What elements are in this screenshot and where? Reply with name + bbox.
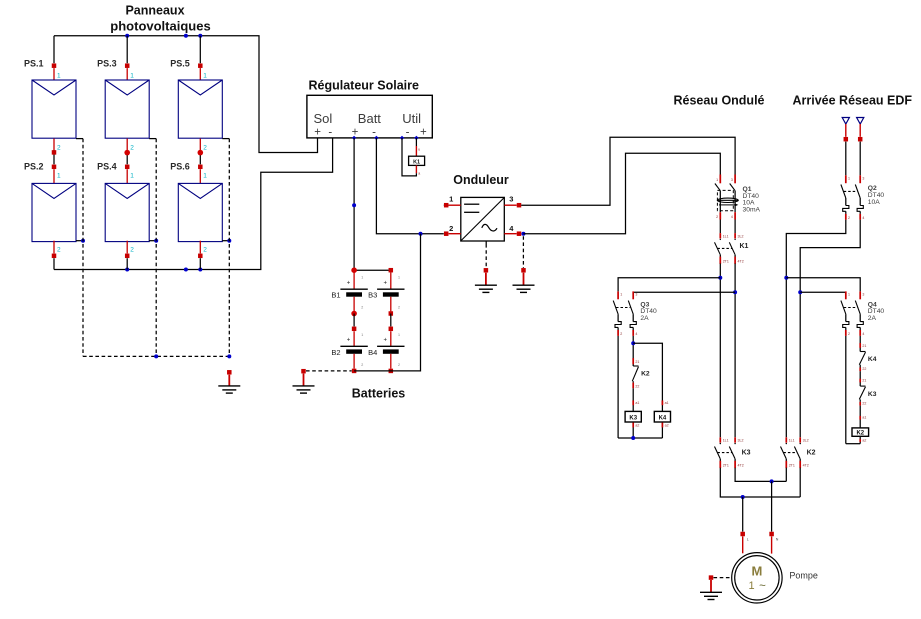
wire dashed frame ground link column 2	[155, 139, 157, 357]
wire branch to Q3 right pole	[633, 291, 735, 293]
svg-text:1: 1	[203, 173, 207, 180]
svg-text:2: 2	[848, 216, 850, 220]
terminal coil K2 A1	[860, 416, 866, 420]
svg-text:K2: K2	[856, 431, 864, 437]
svg-text:a2: a2	[665, 423, 669, 427]
svg-text:2: 2	[716, 215, 718, 219]
wire top bus to PS.1 pin 1	[53, 36, 55, 63]
node frame link junction PS.6	[227, 239, 231, 243]
title Panneaux photovoltaiques	[110, 4, 210, 34]
terminal B3 pin 2	[389, 311, 394, 316]
wire dashed battery ground link	[306, 370, 352, 372]
breaker Q1 pole 2 blade	[730, 184, 735, 191]
contactor K2 pole 2 blade	[794, 443, 801, 459]
node junction line rail to motor	[741, 495, 745, 499]
svg-text:1: 1	[398, 333, 400, 337]
contactor K2 pole 1 bottom terminal	[786, 459, 795, 468]
breaker Q3 pole 2 bottom terminal	[633, 330, 637, 336]
terminal B4 pin 1	[389, 327, 394, 332]
wire regulator Batt- to inverter pin2	[376, 138, 443, 234]
svg-text:3: 3	[862, 292, 864, 296]
node regulator Util+ terminal	[414, 136, 418, 140]
svg-text:2: 2	[57, 247, 61, 254]
svg-text:B3: B3	[368, 291, 377, 300]
terminal K3 contact bottom	[860, 399, 866, 405]
terminal B3 pin 1	[389, 268, 394, 273]
wire K1 pole1 down to contactor K3	[719, 264, 721, 438]
terminal K4 contact top	[860, 343, 866, 348]
svg-text:a1: a1	[665, 401, 669, 405]
svg-text:1: 1	[203, 73, 207, 80]
node regulator Batt+ terminal	[352, 136, 356, 140]
svg-text:1: 1	[848, 176, 850, 180]
svg-text:K1: K1	[413, 159, 420, 165]
wire B3 pin2 to B4 pin1	[390, 314, 392, 327]
wire branch to Q4 left pole	[800, 291, 846, 293]
terminal B2 pin 2	[352, 369, 357, 374]
svg-text:1: 1	[57, 173, 61, 180]
breaker Q3 pole 2 blade	[628, 301, 633, 315]
svg-text:+: +	[420, 126, 427, 138]
svg-text:1: 1	[361, 333, 363, 337]
node junction PS.5 on top bus	[198, 34, 202, 38]
breaker Q2 pole 1 blade	[841, 185, 846, 199]
wire dashed frame ground link horizontal	[83, 355, 229, 357]
breaker Q1 pole 2 top terminal	[731, 175, 735, 184]
contact K4 normally closed	[859, 352, 865, 365]
svg-text:K4: K4	[868, 356, 877, 363]
wire battery bottom rail to inverter pin2 node	[354, 234, 420, 371]
wire K3 pole1 to line rail	[720, 468, 800, 497]
svg-text:-: -	[372, 126, 376, 138]
wire line rail to motor L terminal	[742, 497, 744, 532]
wire Q2 pole2 down to contactor K2	[800, 220, 860, 437]
contactor K2 pole 2 bottom terminal	[800, 459, 809, 468]
node junction on bottom bus	[184, 268, 188, 272]
terminal PS.4 pin 2	[125, 254, 130, 258]
wire Q4 pole2 down	[859, 336, 861, 352]
svg-text:22: 22	[862, 367, 866, 371]
terminal inverter pin 1	[444, 203, 449, 208]
svg-text:PS.3: PS.3	[97, 59, 117, 69]
breaker Q4 mechanical link	[844, 307, 858, 309]
solar panel PS.5	[178, 80, 222, 138]
label Q4 DT40 2A	[868, 301, 885, 322]
svg-text:PS.1: PS.1	[24, 59, 44, 69]
wire PS.1 pin 2 to PS.2 pin 1	[54, 139, 61, 165]
breaker Q3 pole 1 bottom terminal	[618, 330, 622, 336]
breaker Q3 pole 2 top terminal	[633, 291, 637, 299]
svg-text:B4: B4	[368, 348, 377, 357]
solar panel PS.2	[32, 183, 76, 241]
svg-text:21: 21	[862, 378, 866, 382]
svg-text:4: 4	[862, 332, 864, 336]
terminal PS.2 pin 1	[52, 165, 61, 184]
breaker Q1 differential mechanism	[717, 190, 738, 210]
wire coil K2 return rail	[846, 443, 860, 445]
breaker Q3 pole 2 thermal element	[630, 314, 636, 330]
breaker Q1 pole conductors	[720, 191, 735, 213]
contactor K1 pole 2 bottom terminal	[735, 255, 744, 264]
contactor K2 pole 2 top terminal	[800, 437, 808, 442]
wire inverter pin 3 to breaker Q1 right pole	[521, 137, 735, 205]
svg-text:22: 22	[862, 402, 866, 406]
terminal EDF neutral	[858, 137, 863, 142]
terminal inverter pin 3	[517, 203, 522, 208]
wire K3 pole2 to neutral rail	[735, 468, 786, 482]
svg-text:-: -	[328, 126, 332, 138]
wire B1 pin2 to B2 pin1	[353, 314, 355, 327]
node junction EDF neutral / Q4 branch	[798, 290, 802, 294]
svg-text:3L2: 3L2	[738, 235, 744, 239]
label Q3 DT40 2A	[640, 301, 657, 322]
svg-text:Sol: Sol	[314, 111, 333, 126]
terminal PS.4 pin 1	[125, 165, 134, 184]
svg-text:2: 2	[130, 247, 134, 254]
breaker Q4 pole 1 bottom terminal	[846, 330, 850, 336]
svg-text:+: +	[383, 338, 387, 344]
svg-text:1L1: 1L1	[723, 439, 729, 443]
svg-text:2: 2	[57, 145, 61, 152]
terminal coil K4 A2	[662, 422, 668, 438]
terminal PS.3 pin 1	[125, 63, 134, 80]
node frame link junction right	[227, 354, 231, 358]
svg-text:Arrivée Réseau EDF: Arrivée Réseau EDF	[793, 94, 913, 108]
svg-text:a1: a1	[635, 401, 639, 405]
terminal motor L	[740, 532, 748, 554]
wire panel frame link row2 PS.4	[149, 240, 156, 242]
contactor K3 pole 1 blade	[715, 443, 722, 459]
terminal PS.1 pin 1	[52, 63, 61, 80]
svg-text:2T1: 2T1	[789, 464, 795, 468]
breaker Q3 pole 1 blade	[613, 301, 618, 315]
wire Q3 pole2 down	[632, 336, 634, 366]
node junction PS.6 on bottom bus	[198, 268, 202, 272]
breaker Q2 pole 1 bottom terminal	[846, 214, 850, 220]
svg-text:Régulateur Solaire: Régulateur Solaire	[309, 79, 419, 93]
svg-text:Onduleur: Onduleur	[453, 173, 509, 187]
terminal inverter pin 2	[444, 231, 449, 236]
node junction coil rail	[631, 436, 635, 440]
contactor K1 pole 1 top terminal	[720, 233, 728, 238]
contactor K2 mechanical link	[783, 452, 797, 454]
svg-text:B1: B1	[331, 291, 340, 300]
contactor K3 pole 1 bottom terminal	[720, 459, 729, 468]
wire inverter pin 1	[444, 194, 461, 205]
battery B2	[331, 331, 367, 368]
svg-text:L: L	[747, 538, 749, 542]
contactor K1 pole 1 blade	[715, 239, 722, 255]
solar panel PS.6	[178, 183, 222, 241]
wire Q4 pole1 down to coil rail	[845, 336, 847, 444]
svg-text:10A: 10A	[868, 199, 880, 206]
svg-text:1: 1	[57, 73, 61, 80]
wire PS.5 pin 2 to PS.6 pin 1	[200, 139, 207, 165]
svg-text:M: M	[751, 563, 762, 578]
terminal inverter neutral ground	[521, 268, 526, 285]
svg-text:K4: K4	[659, 416, 667, 422]
label Q1 DT40 10A 30mA	[743, 186, 761, 213]
node junction B1 pin 1	[351, 267, 357, 273]
wire dashed frame ground link column 1	[82, 139, 84, 357]
wire PS.3 pin 2 to PS.4 pin 1	[127, 139, 134, 165]
svg-text:a: a	[418, 172, 420, 176]
contactor K3 pole 2 top terminal	[735, 437, 743, 442]
wire neutral rail to motor N terminal	[771, 481, 773, 531]
svg-text:Pompe: Pompe	[789, 570, 818, 580]
svg-text:4: 4	[862, 216, 864, 220]
terminal motor N	[769, 532, 778, 554]
svg-text:~: ~	[759, 581, 766, 593]
wire PS.2 pin 2 to bottom bus	[54, 241, 61, 270]
wire battery top link B1-B3	[354, 269, 391, 271]
wire dashed inverter neutral ground	[522, 236, 524, 268]
wire dashed frame ground link column 3	[228, 139, 230, 357]
terminal EDF phase	[844, 137, 849, 142]
solar panel PS.4	[105, 183, 149, 241]
svg-text:4: 4	[731, 215, 733, 219]
wire PS.6 pin 2 to bottom bus	[200, 241, 207, 270]
svg-text:1L1: 1L1	[723, 235, 729, 239]
svg-text:+: +	[314, 126, 321, 138]
wire K2 contact to coil K3	[632, 388, 634, 411]
wire inverter pin 4	[504, 224, 516, 234]
node junction Q3 pole2 / K4 coil branch	[631, 341, 635, 345]
svg-text:2: 2	[449, 224, 453, 233]
svg-text:2T1: 2T1	[723, 464, 729, 468]
svg-text:photovoltaiques: photovoltaiques	[110, 19, 210, 34]
wire Q1 to contactor K1	[720, 220, 735, 234]
svg-text:4T2: 4T2	[738, 464, 744, 468]
breaker Q2 pole 2 blade	[855, 185, 860, 199]
breaker Q2 pole 1 top terminal	[846, 175, 850, 183]
wire dashed inverter case ground	[485, 241, 487, 268]
svg-text:+: +	[352, 126, 359, 138]
wire K3 contact to coil K2	[859, 406, 861, 428]
svg-text:u: u	[418, 148, 420, 152]
svg-text:PS.4: PS.4	[97, 162, 117, 172]
wire dashed motor ground link	[714, 577, 732, 579]
solar panel PS.1	[32, 80, 76, 138]
terminal PS.2 pin 2	[52, 254, 57, 258]
terminal B2 pin 1	[352, 327, 357, 332]
inverter U2 box	[461, 197, 505, 241]
svg-text:a1: a1	[862, 416, 866, 420]
battery B3	[368, 273, 404, 312]
terminal coil K4 A1	[662, 400, 668, 405]
svg-text:N: N	[776, 538, 779, 542]
svg-text:2: 2	[620, 332, 622, 336]
svg-text:4: 4	[635, 332, 637, 336]
node junction PS.3 on top bus	[125, 34, 129, 38]
node frame link junction PS.4	[154, 239, 158, 243]
relay coil K4	[654, 411, 670, 422]
wire K1 pole2 down to contactor K3	[734, 264, 736, 438]
contactor K1 pole 1 bottom terminal	[720, 255, 729, 264]
node frame link junction PS.2	[81, 239, 85, 243]
relay coil K2	[852, 428, 869, 437]
node frame link junction middle	[154, 354, 158, 358]
relay coil K3	[625, 411, 641, 422]
ground batteries	[293, 386, 315, 393]
breaker Q4 pole 1 top terminal	[846, 291, 850, 299]
svg-text:PS.5: PS.5	[170, 59, 190, 69]
svg-text:PS.2: PS.2	[24, 162, 44, 172]
svg-text:1: 1	[620, 292, 622, 296]
terminal coil K3 A1	[633, 400, 639, 405]
terminal K4 contact bottom	[860, 365, 866, 372]
wire branch to relay coil K4	[633, 343, 662, 411]
terminal coil K2 A2	[860, 436, 866, 443]
node junction pin2 / battery return	[419, 232, 423, 236]
wire K4 contact to K3 contact	[859, 371, 861, 386]
terminal PS.5 pin 1	[198, 63, 207, 80]
breaker Q4 pole 2 top terminal	[860, 291, 864, 299]
wire Q2 pole1 down to contactor K2	[786, 220, 846, 437]
svg-text:K1: K1	[740, 243, 749, 250]
ground inverter case	[475, 285, 497, 292]
terminal coil K3 A2	[633, 422, 639, 438]
svg-text:3: 3	[862, 176, 864, 180]
svg-text:2: 2	[361, 306, 363, 310]
svg-text:1L1: 1L1	[789, 439, 795, 443]
contact K3 normally closed	[859, 386, 865, 399]
wire inverter pin 2	[449, 224, 461, 234]
svg-text:2T1: 2T1	[723, 260, 729, 264]
svg-text:+: +	[347, 338, 351, 344]
terminal EDF phase input arrow	[842, 118, 849, 137]
label Q2 DT40 10A	[868, 185, 885, 206]
breaker Q1 pole 1 top terminal	[716, 175, 720, 184]
node regulator Util- terminal	[400, 136, 404, 140]
battery B1	[331, 273, 367, 312]
breaker Q2 mechanical link	[844, 190, 858, 192]
svg-text:2: 2	[203, 145, 207, 152]
svg-text:Réseau Ondulé: Réseau Ondulé	[674, 94, 765, 108]
solar regulator U1 box	[307, 95, 432, 138]
contactor K3 mechanical link	[717, 452, 732, 454]
terminal inverter case ground	[484, 268, 489, 285]
breaker Q4 pole 2 bottom terminal	[860, 330, 864, 336]
svg-text:3: 3	[731, 178, 733, 182]
svg-text:K3: K3	[868, 391, 877, 398]
svg-text:1: 1	[130, 173, 134, 180]
ground motor	[700, 592, 722, 599]
wire PS.4 pin 2 to bottom bus	[127, 241, 134, 270]
wire panel frame link row1 PS.3	[149, 138, 156, 140]
node junction EDF phase / Q4 branch	[784, 276, 788, 280]
node junction PS.4 on bottom bus	[125, 268, 129, 272]
node junction on top bus	[184, 34, 188, 38]
terminal K2 contact bottom	[633, 381, 639, 388]
contactor K1 pole 2 top terminal	[735, 233, 743, 238]
wire panel frame link row1 PS.5	[222, 138, 229, 140]
svg-text:Batt: Batt	[358, 111, 382, 126]
wire regulator Util+ to relay coil K1	[416, 138, 420, 156]
svg-text:a2: a2	[635, 423, 639, 427]
node junction Batt+ / inverter pin1	[352, 203, 356, 207]
svg-text:K3: K3	[629, 416, 637, 422]
contactor K2 pole 1 top terminal	[786, 437, 794, 442]
svg-text:2A: 2A	[640, 315, 649, 322]
breaker Q3 pole 1 thermal element	[615, 314, 621, 330]
terminal PS.5 pin 2	[198, 150, 204, 156]
svg-text:K2: K2	[807, 450, 816, 457]
wire bottom bus to regulator Sol-	[54, 138, 333, 270]
wire EDF neutral to breaker Q2	[859, 142, 861, 176]
breaker Q1 pole 2 bottom terminal	[731, 212, 735, 219]
contactor K2 pole 1 blade	[781, 443, 788, 459]
breaker Q2 pole 1 thermal element	[843, 198, 849, 214]
contactor K3 pole 2 bottom terminal	[735, 459, 744, 468]
svg-text:Batteries: Batteries	[352, 387, 406, 401]
svg-text:B2: B2	[331, 348, 340, 357]
wire top bus to PS.3 pin 1	[126, 36, 128, 63]
svg-text:1: 1	[398, 276, 400, 280]
svg-text:3L2: 3L2	[803, 439, 809, 443]
node junction B1 pin 2	[351, 311, 357, 317]
svg-text:2: 2	[130, 145, 134, 152]
svg-text:4T2: 4T2	[803, 464, 809, 468]
svg-text:2A: 2A	[868, 315, 877, 322]
terminal K2 contact top	[633, 358, 639, 364]
wire panel frame link row2 PS.6	[222, 240, 229, 242]
terminal PS.6 pin 1	[198, 165, 207, 184]
breaker Q2 pole 2 top terminal	[860, 175, 864, 183]
breaker Q2 pole 2 thermal element	[857, 198, 863, 214]
svg-text:4T2: 4T2	[738, 260, 744, 264]
contactor K1 mechanical link	[717, 247, 732, 249]
contact K2 normally closed	[632, 366, 638, 381]
svg-text:3L2: 3L2	[738, 439, 744, 443]
terminal panels frame ground	[227, 370, 232, 386]
node junction K1 pole2 / Q3 branch	[733, 290, 737, 294]
svg-text:2: 2	[203, 247, 207, 254]
wire relay coil K1 to regulator Util-	[402, 138, 420, 176]
terminal PS.1 pin 2	[52, 150, 57, 155]
wire top bus to PS.5 pin 1	[199, 36, 201, 63]
node junction neutral rail to motor	[770, 479, 774, 483]
breaker Q4 pole 2 blade	[855, 301, 860, 315]
breaker Q3 mechanical link	[616, 307, 630, 309]
breaker Q4 pole 1 thermal element	[843, 314, 849, 330]
svg-text:22: 22	[635, 384, 639, 388]
svg-text:2: 2	[398, 306, 400, 310]
motor M1 pump	[732, 553, 782, 603]
terminal motor ground	[709, 575, 714, 592]
terminal battery ground	[301, 369, 306, 386]
svg-text:30mA: 30mA	[743, 206, 761, 213]
ground inverter neutral	[513, 285, 535, 292]
contactor K3 pole 2 blade	[729, 443, 736, 459]
ground panels frame	[218, 386, 240, 393]
svg-text:21: 21	[862, 344, 866, 348]
breaker Q1 pole 1 blade	[715, 184, 720, 191]
breaker Q3 pole 1 top terminal	[618, 291, 622, 299]
terminal K3 contact top	[860, 378, 866, 382]
wire Q3 pole1 down to relay rail	[617, 336, 619, 438]
svg-text:1: 1	[449, 194, 453, 203]
svg-text:K2: K2	[641, 370, 650, 377]
terminal inverter pin 4	[517, 231, 522, 236]
svg-text:1: 1	[716, 178, 718, 182]
svg-text:1: 1	[130, 73, 134, 80]
terminal B4 pin 2	[389, 369, 394, 374]
breaker Q1 pole 1 bottom terminal	[716, 212, 720, 219]
svg-text:K3: K3	[742, 450, 751, 457]
svg-text:1: 1	[848, 292, 850, 296]
svg-text:1: 1	[748, 580, 754, 592]
